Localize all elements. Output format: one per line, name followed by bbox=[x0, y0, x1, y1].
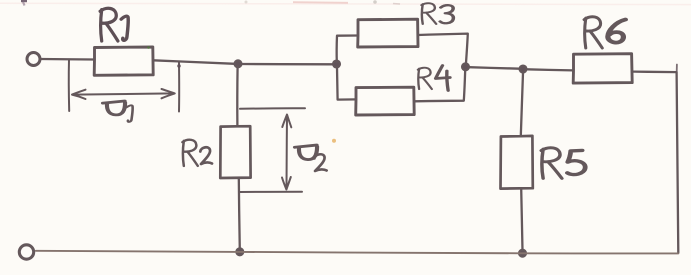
wire node A down to R2 bbox=[236, 66, 239, 126]
wire node B down and to R4 bbox=[337, 67, 356, 100]
label R4 bbox=[418, 66, 450, 91]
wire R3 to node C bbox=[418, 34, 468, 63]
label R5 bbox=[541, 148, 585, 179]
wire node A to node B bbox=[242, 63, 334, 66]
voltage U2 top tick bbox=[240, 107, 305, 110]
bottom wire bbox=[36, 251, 679, 254]
node F (bottom junction under R2) bbox=[236, 248, 243, 255]
voltage arrow U1 bbox=[72, 89, 175, 99]
resistor R3 bbox=[358, 19, 418, 47]
terminal (bottom-left input) bbox=[19, 245, 33, 259]
wire R6 to right edge and down bbox=[632, 72, 678, 253]
node D (R5/R6 junction) bbox=[520, 66, 527, 73]
node B (R3/R4 left junction) bbox=[333, 61, 340, 68]
wire R4 to node C bbox=[414, 70, 465, 101]
label R3 bbox=[421, 3, 453, 24]
wire R2 down to bottom node bbox=[239, 178, 240, 251]
terminal (top-left input) bbox=[27, 53, 40, 66]
faint ruled line top bbox=[0, 3, 691, 4]
label R2 bbox=[182, 140, 212, 166]
wire node D down to R5 bbox=[521, 73, 523, 136]
label R6 bbox=[584, 17, 625, 48]
voltage arrow U2 bbox=[282, 115, 291, 190]
paper specks bbox=[332, 139, 336, 143]
node C (R3/R4 right junction) bbox=[462, 63, 469, 70]
node A (R2 branch) bbox=[235, 60, 242, 67]
wire terminal to R1 bbox=[42, 58, 95, 61]
resistor R5 bbox=[501, 136, 533, 189]
voltage U1 right tick bbox=[178, 63, 180, 112]
wire R1 to node A bbox=[153, 60, 235, 64]
label U1 bbox=[103, 101, 133, 122]
label R1 bbox=[100, 8, 128, 41]
label U2 bbox=[295, 145, 327, 171]
wire R5 down to node E bbox=[521, 189, 522, 251]
resistor R1 bbox=[94, 47, 153, 75]
wire node B up and to R3 bbox=[337, 36, 358, 63]
voltage U1 left tick bbox=[68, 60, 70, 111]
wire node C to node D bbox=[469, 67, 520, 69]
resistor R2 bbox=[220, 126, 250, 178]
wire node D to R6 bbox=[527, 69, 574, 70]
node E (bottom junction right) bbox=[519, 250, 526, 257]
voltage U2 bottom tick bbox=[240, 191, 302, 193]
resistor R4 bbox=[356, 87, 415, 115]
resistor R6 bbox=[573, 54, 632, 83]
